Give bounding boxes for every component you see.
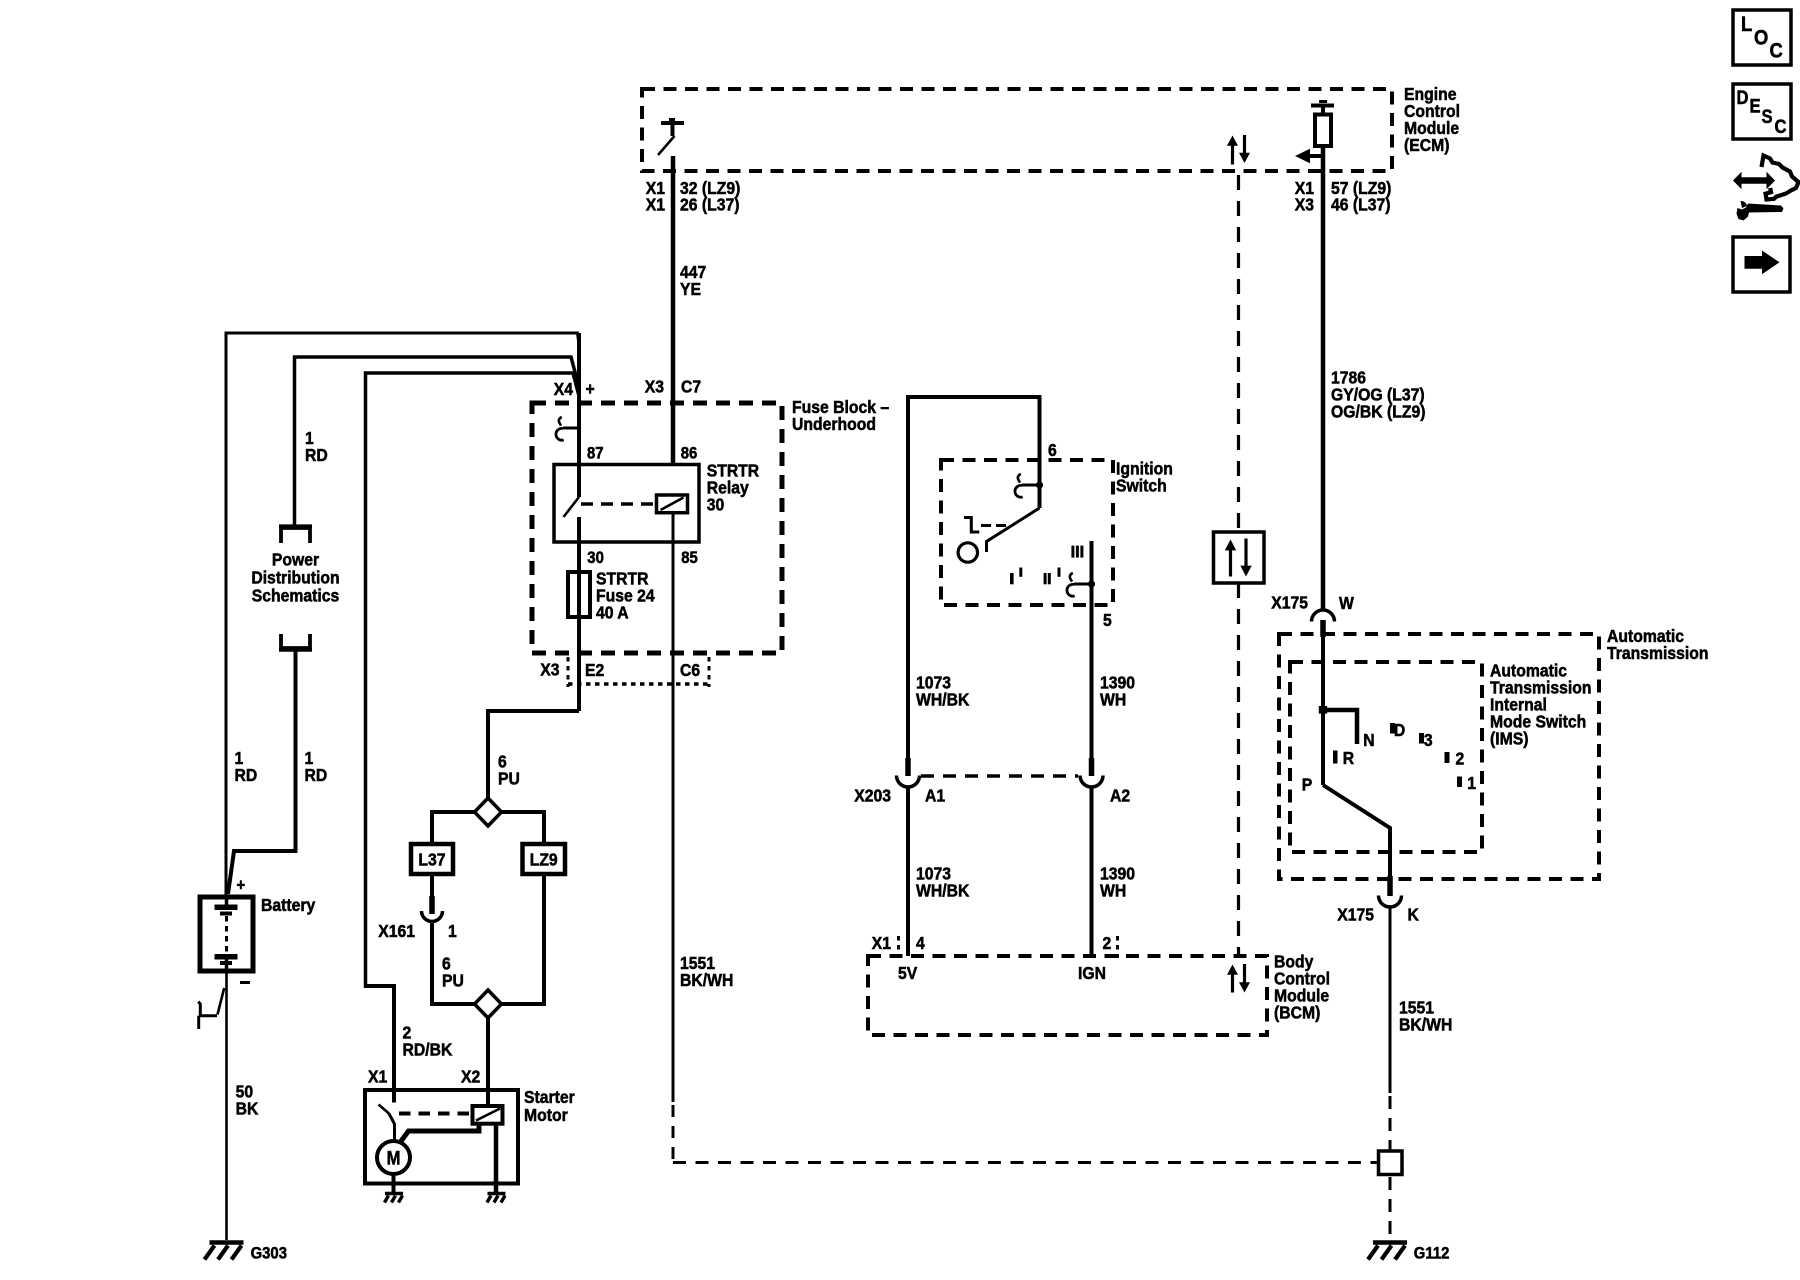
svg-text:1: 1 <box>448 921 457 941</box>
ACC dashed link <box>981 524 1006 527</box>
svg-text:IGN: IGN <box>1078 963 1106 983</box>
dashed ground run to splice square <box>673 1161 1379 1164</box>
svg-text:M: M <box>387 1147 401 1168</box>
BCM serial arrows <box>1227 964 1250 993</box>
svg-text:BK: BK <box>236 1098 259 1118</box>
solenoid switch contact tick <box>379 1105 390 1114</box>
splice diamond upper <box>475 798 502 826</box>
svg-text:WH/BK: WH/BK <box>916 689 970 709</box>
wire 447 YE (ECM switch to relay 86 via C7) <box>671 156 676 465</box>
off-page connector from power distribution (bottom) <box>279 634 312 650</box>
ground G303 <box>205 1243 244 1260</box>
svg-text:Motor: Motor <box>524 1105 568 1125</box>
connector X175 W <box>1312 610 1335 637</box>
wire 6 PU (E2 to upper splice) <box>488 711 579 798</box>
wire label 1073 WH/BK upper <box>916 672 970 709</box>
link solenoid contact to motor <box>400 1124 479 1143</box>
svg-text:Switch: Switch <box>1116 476 1167 496</box>
position tick 1 <box>1457 777 1462 788</box>
dashed wire to splice square <box>1389 1096 1392 1151</box>
wire feed C top horizontal <box>366 373 580 988</box>
wire label 1 RD (line A) <box>235 748 258 785</box>
wire 1786 (ECM to X175 W) <box>1321 146 1326 610</box>
svg-text:4: 4 <box>916 933 925 953</box>
wire label 6 PU upper <box>498 752 520 789</box>
svg-text:BK/WH: BK/WH <box>1399 1014 1452 1034</box>
connector X203 A1 <box>897 758 920 787</box>
svg-text:E2: E2 <box>585 660 604 680</box>
connector X175 K <box>1379 876 1402 907</box>
svg-text:G303: G303 <box>251 1245 287 1263</box>
position tick 3 <box>1419 733 1424 744</box>
battery box <box>200 897 253 971</box>
svg-text:C6: C6 <box>680 660 700 680</box>
icon diagnostic double arrow <box>1733 172 1775 189</box>
wire label 1551 BK/WH right <box>1399 997 1452 1034</box>
wire label 2 RD/BK <box>402 1023 453 1060</box>
wire label 1390 WH upper <box>1100 672 1135 709</box>
position tick D <box>1390 723 1395 734</box>
relay actuation dashed link <box>581 502 656 506</box>
connector labels X203 A1 A2 <box>854 785 1130 805</box>
L37 box <box>411 844 453 874</box>
ECM serial data arrows <box>1227 135 1250 165</box>
svg-text:1: 1 <box>1467 773 1476 793</box>
serial data dashed line (serial box to BCM) <box>1237 583 1240 955</box>
BCM pin label 2 <box>1102 933 1117 958</box>
ground G112 <box>1368 1243 1407 1260</box>
svg-text:X1: X1 <box>368 1067 387 1087</box>
svg-text:5: 5 <box>1103 610 1112 630</box>
starter motor box <box>365 1090 518 1184</box>
svg-text:(BCM): (BCM) <box>1274 1003 1320 1023</box>
svg-text:X3: X3 <box>540 659 559 679</box>
wire label 1390 WH lower <box>1100 863 1135 900</box>
relay switch lower contact stub / wire through fuse <box>577 517 581 711</box>
ECM label <box>1404 84 1460 155</box>
svg-text:S: S <box>1762 106 1773 127</box>
ECM box (Engine Control Module) <box>642 89 1392 171</box>
svg-text:PU: PU <box>498 769 520 789</box>
svg-text:C7: C7 <box>681 377 701 397</box>
svg-text:D: D <box>1394 720 1405 740</box>
automatic transmission outer box <box>1279 634 1599 879</box>
serial data gateway box <box>1214 532 1265 583</box>
connector label X3 C7 <box>645 377 701 397</box>
svg-text:X1: X1 <box>872 933 891 953</box>
svg-text:X2: X2 <box>461 1067 480 1087</box>
icon forward arrow box <box>1733 237 1790 292</box>
battery minus sign <box>240 981 250 984</box>
svg-text:K: K <box>1408 904 1420 924</box>
ECM starter relay driver switch <box>658 120 684 156</box>
motor M circle <box>377 1141 410 1174</box>
wire to LZ9 <box>502 812 545 844</box>
ignition clip terminal 6 <box>1015 474 1043 497</box>
ground at motor <box>385 1194 404 1203</box>
wire label 1073 WH/BK lower <box>916 863 970 900</box>
svg-text:YE: YE <box>680 279 701 299</box>
position mark II <box>1044 568 1061 585</box>
position tick R <box>1333 751 1338 764</box>
ignition switch label <box>1116 459 1173 496</box>
svg-text:N: N <box>1363 730 1374 750</box>
svg-text:A2: A2 <box>1110 785 1130 805</box>
wire X161 to lower splice <box>432 922 475 1005</box>
svg-text:G112: G112 <box>1414 1245 1450 1263</box>
svg-text:86: 86 <box>681 444 698 462</box>
ACC contact step mark <box>964 518 979 533</box>
fuse block box (Fuse Block - Underhood) <box>532 403 782 653</box>
svg-text:P: P <box>1302 775 1313 795</box>
svg-text:WH/BK: WH/BK <box>916 880 970 900</box>
wire to L37 <box>432 812 475 844</box>
svg-text:WH: WH <box>1100 880 1126 900</box>
svg-text:6: 6 <box>1048 440 1057 460</box>
svg-text:O: O <box>1754 26 1768 49</box>
pin label X1 57 (LZ9) / X3 46 (L37) <box>1295 178 1392 215</box>
svg-text:WH: WH <box>1100 689 1126 709</box>
svg-text:(IMS): (IMS) <box>1490 728 1528 748</box>
ground splice square <box>1379 1151 1403 1175</box>
IMS label <box>1490 660 1592 748</box>
svg-text:OG/BK (LZ9): OG/BK (LZ9) <box>1331 401 1425 421</box>
junction node <box>1319 706 1327 714</box>
svg-text:26 (L37): 26 (L37) <box>680 195 740 215</box>
clip symbol at X4 <box>556 417 579 440</box>
solenoid actuation dashed link <box>399 1112 472 1116</box>
X203 mated dashed link <box>921 774 1078 778</box>
STRTR relay box <box>554 465 699 543</box>
connector X203 A2 <box>1080 758 1103 787</box>
svg-text:5V: 5V <box>898 963 918 983</box>
automatic transmission label <box>1607 626 1709 663</box>
svg-text:X4: X4 <box>554 379 574 399</box>
connector label X161 1 <box>378 921 457 941</box>
battery cells <box>215 897 238 971</box>
svg-text:LZ9: LZ9 <box>530 850 558 870</box>
svg-text:87: 87 <box>587 444 604 462</box>
wire label 6 PU lower <box>442 953 464 990</box>
svg-text:W: W <box>1339 593 1354 613</box>
ECM driver output arrow <box>1295 149 1323 163</box>
wire label 1551 BK/WH left <box>680 953 733 990</box>
fusible link symbol on 50 BK <box>198 988 224 1029</box>
svg-text:R: R <box>1343 748 1354 768</box>
solenoid coil box <box>473 1106 503 1124</box>
dashed wire left 1551 to ground run <box>672 1105 675 1163</box>
wire 1551 BK/WH right <box>1389 907 1392 1093</box>
connector X161 pin 1 <box>422 874 443 922</box>
svg-text:A1: A1 <box>925 785 945 805</box>
ignition switch box <box>941 460 1113 605</box>
wire label 1 RD (line B) <box>304 748 327 785</box>
icon diagnostic hand outline <box>1733 156 1799 221</box>
svg-text:Battery: Battery <box>261 895 316 915</box>
wire X175 W into IMS <box>1321 637 1325 785</box>
svg-text:X203: X203 <box>854 785 891 805</box>
wire 1390 WH (ignition 5 wire, upper) <box>1090 541 1094 776</box>
svg-text:C: C <box>1774 116 1786 137</box>
ground at solenoid <box>487 1194 506 1203</box>
label Power Distribution Schematics <box>251 549 339 605</box>
connector row X3 E2 C6 <box>540 657 709 687</box>
relay label STRTR Relay 30 <box>707 460 759 514</box>
wire feed B lower to battery <box>228 651 296 894</box>
wire battery feed A top <box>226 333 579 897</box>
svg-text:PU: PU <box>442 970 464 990</box>
wire LZ9 to lower splice <box>502 874 545 1004</box>
position mark III <box>1071 546 1083 558</box>
svg-text:X161: X161 <box>378 921 415 941</box>
wire label 1 RD (line B top) <box>305 428 328 465</box>
BCM pin label X1 4 <box>872 933 926 958</box>
wire 2 RD/BK jog to X1 <box>366 986 395 1103</box>
connector label X4 + <box>554 379 595 399</box>
ignition key blade <box>987 508 1040 552</box>
svg-text:2: 2 <box>1455 748 1464 768</box>
svg-text:3: 3 <box>1424 730 1433 750</box>
branch to N position <box>1325 710 1357 744</box>
connector label X175 K <box>1337 904 1419 924</box>
wire 1073 WH/BK (ignition 6 wire, upper) <box>908 397 1040 776</box>
serial data dashed line (ECM to serial box) <box>1237 175 1240 532</box>
svg-text:X175: X175 <box>1271 592 1308 612</box>
svg-text:C: C <box>1769 39 1782 62</box>
solenoid coil diagonal <box>476 1109 500 1121</box>
ignition key circle <box>958 543 977 562</box>
svg-text:2: 2 <box>1102 933 1111 953</box>
svg-text:RD: RD <box>305 445 328 465</box>
svg-text:(ECM): (ECM) <box>1404 135 1449 155</box>
svg-text:RD: RD <box>304 765 327 785</box>
svg-text:X1: X1 <box>646 195 665 215</box>
position tick 2 <box>1445 752 1450 763</box>
motor ground wire <box>392 1174 396 1192</box>
dashed wire splice to G112 <box>1389 1177 1392 1240</box>
svg-text:D: D <box>1737 87 1749 108</box>
svg-text:46 (L37): 46 (L37) <box>1331 195 1391 215</box>
svg-text:30: 30 <box>707 494 725 514</box>
svg-text:L37: L37 <box>418 850 445 870</box>
relay coil diagonal <box>661 498 684 511</box>
svg-text:+: + <box>237 877 246 895</box>
svg-text:X175: X175 <box>1337 904 1374 924</box>
icon diagnostic wrench <box>1737 204 1784 221</box>
starter motor label <box>524 1087 575 1125</box>
BCM label <box>1274 952 1330 1023</box>
svg-text:40 A: 40 A <box>596 603 629 623</box>
solenoid switch blade <box>389 1114 395 1143</box>
ECM sense resistor <box>1311 102 1334 147</box>
svg-text:Transmission: Transmission <box>1607 643 1709 663</box>
svg-text:BK/WH: BK/WH <box>680 970 733 990</box>
svg-text:X3: X3 <box>645 377 664 397</box>
IMS inner box <box>1290 662 1482 852</box>
IMS selector wire P to output <box>1323 785 1390 876</box>
wire 1390 WH (X203 A2 to BCM 2, lower) <box>1090 788 1094 957</box>
wire label 447 YE <box>680 262 706 299</box>
wire relay 85 down through C6 <box>672 513 675 1102</box>
solenoid output wire to ground <box>494 1124 499 1192</box>
wire 50 BK battery negative <box>225 971 228 1240</box>
BCM box (Body Control Module) <box>868 956 1267 1035</box>
svg-text:X3: X3 <box>1295 195 1314 215</box>
serial box arrows <box>1225 539 1252 577</box>
wire label 1786 GY/OG (L37) OG/BK (LZ9) <box>1331 367 1425 421</box>
svg-text:L: L <box>1741 13 1752 36</box>
relay coil box <box>657 495 688 513</box>
icon LOC box <box>1733 10 1791 65</box>
STRTR fuse 24 <box>568 572 590 617</box>
wire B+ feed into relay 87 <box>577 333 581 497</box>
LZ9 box <box>523 844 566 874</box>
connector label X175 W <box>1271 592 1354 613</box>
fuse block label <box>792 397 889 434</box>
wire 1073 WH/BK (X203 A1 to BCM 4, lower) <box>906 788 910 957</box>
wire label 50 BK <box>236 1081 259 1118</box>
svg-text:Underhood: Underhood <box>792 414 876 434</box>
svg-text:85: 85 <box>681 549 698 567</box>
svg-text:30: 30 <box>587 549 604 567</box>
svg-text:RD/BK: RD/BK <box>402 1040 453 1060</box>
icon DESC box <box>1733 84 1791 139</box>
wire feed B top horizontal <box>295 357 580 526</box>
wire lower splice to X2 <box>486 1018 490 1106</box>
svg-text:Schematics: Schematics <box>252 585 340 605</box>
svg-text:+: + <box>586 379 595 399</box>
splice diamond lower <box>475 990 502 1018</box>
pin label X1 32 (LZ9) / X1 26 (L37) <box>646 178 741 215</box>
off-page connector to power distribution (top) <box>279 526 312 543</box>
ignition clip terminal 5 <box>1067 573 1095 596</box>
svg-text:E: E <box>1749 95 1760 116</box>
position mark I <box>1010 568 1022 585</box>
relay switch blade <box>564 497 580 517</box>
svg-text:RD: RD <box>235 765 258 785</box>
fuse label STRTR Fuse 24 40 A <box>596 569 655 623</box>
